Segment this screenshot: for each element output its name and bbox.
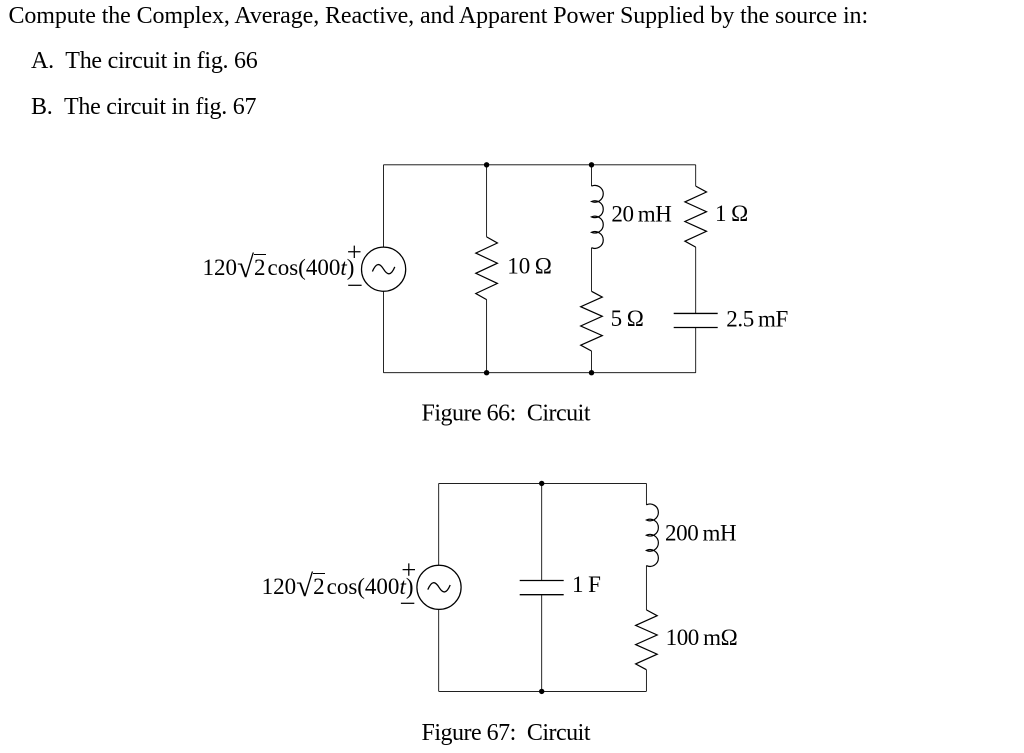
- node dot: top rail / 10-ohm: [484, 162, 489, 167]
- node dot: fig67 top rail / 1F branch: [539, 481, 544, 486]
- resistor 5 ohm: [581, 291, 603, 351]
- svg-text:2.5 mF: 2.5 mF: [726, 307, 788, 332]
- wire: between 1-ohm and 2.5mF: [695, 247, 697, 313]
- node dot: bottom rail / 10-ohm: [484, 370, 489, 375]
- item B: [31, 95, 256, 119]
- wire: fig66 left side above source: [383, 165, 385, 248]
- svg-text:100 mΩ: 100 mΩ: [666, 625, 738, 650]
- plus sign of V1: [348, 246, 360, 258]
- inductor 20 mH: [592, 185, 604, 248]
- wire: fig67 top rail: [439, 482, 647, 484]
- svg-text:5 Ω: 5 Ω: [611, 306, 644, 331]
- wire: 10-ohm branch top lead: [486, 165, 488, 237]
- voltage source V1 circle: [362, 247, 406, 291]
- node dot: fig67 bottom rail / 1F branch: [539, 689, 544, 694]
- svg-text:200 mH: 200 mH: [665, 521, 736, 546]
- svg-text:1 Ω: 1 Ω: [715, 201, 748, 226]
- wire: fig67 left side below source: [438, 609, 440, 691]
- wire: 100m-ohm bottom lead: [645, 670, 647, 692]
- wire: fig66 left side below source: [383, 291, 385, 373]
- node dot: bottom rail / 5-ohm: [589, 370, 594, 375]
- problem statement line 1: [9, 4, 869, 28]
- capacitor 1 F plates: [520, 581, 564, 595]
- minus sign of V1: [348, 284, 361, 286]
- inductor 200 mH: [646, 504, 658, 566]
- source value label V1 (fig 66): [203, 256, 355, 279]
- wire: fig66 top rail: [384, 164, 696, 166]
- node dot: top rail / inductor branch: [589, 162, 594, 167]
- svg-text:1 F: 1 F: [572, 572, 601, 597]
- wire: fig67 bottom rail: [439, 690, 647, 692]
- svg-text:Figure 66: Circuit: Figure 66: Circuit: [422, 401, 591, 427]
- wire: fig66 bottom rail: [384, 372, 696, 374]
- resistor 10 ohm: [476, 237, 498, 300]
- wire: 10-ohm branch bottom lead: [486, 300, 488, 373]
- source value label V2 (fig 67): [262, 575, 414, 598]
- svg-text:10 Ω: 10 Ω: [507, 254, 552, 279]
- plus sign of V2: [403, 563, 415, 575]
- svg-text:20 mH: 20 mH: [611, 201, 671, 226]
- wire: 200mH top lead: [645, 483, 647, 504]
- voltage source V2 sine symbol: [428, 583, 450, 592]
- voltage source V2 circle: [417, 565, 461, 609]
- svg-text:Figure 67: Circuit: Figure 67: Circuit: [422, 720, 591, 746]
- wire: inductor branch top lead: [591, 165, 593, 186]
- minus sign of V2: [401, 602, 414, 604]
- wire: 2.5mF bottom lead: [695, 328, 697, 373]
- item A: [31, 49, 258, 73]
- wire: 1-ohm top lead: [695, 165, 697, 186]
- resistor 100 m-ohm: [636, 610, 658, 670]
- wire: between 20mH and 5-ohm: [591, 248, 593, 292]
- wire: 5-ohm bottom lead: [591, 351, 593, 373]
- wire: between 200mH and 100m-ohm: [645, 566, 647, 610]
- resistor 1 ohm: [685, 186, 707, 247]
- capacitor 2.5 mF plates: [674, 313, 718, 327]
- wire: fig67 left side above source: [438, 483, 440, 565]
- wire: 1F branch bottom lead: [541, 595, 543, 691]
- voltage source V1 sine symbol: [372, 265, 394, 274]
- wire: 1F branch top lead: [541, 483, 543, 580]
